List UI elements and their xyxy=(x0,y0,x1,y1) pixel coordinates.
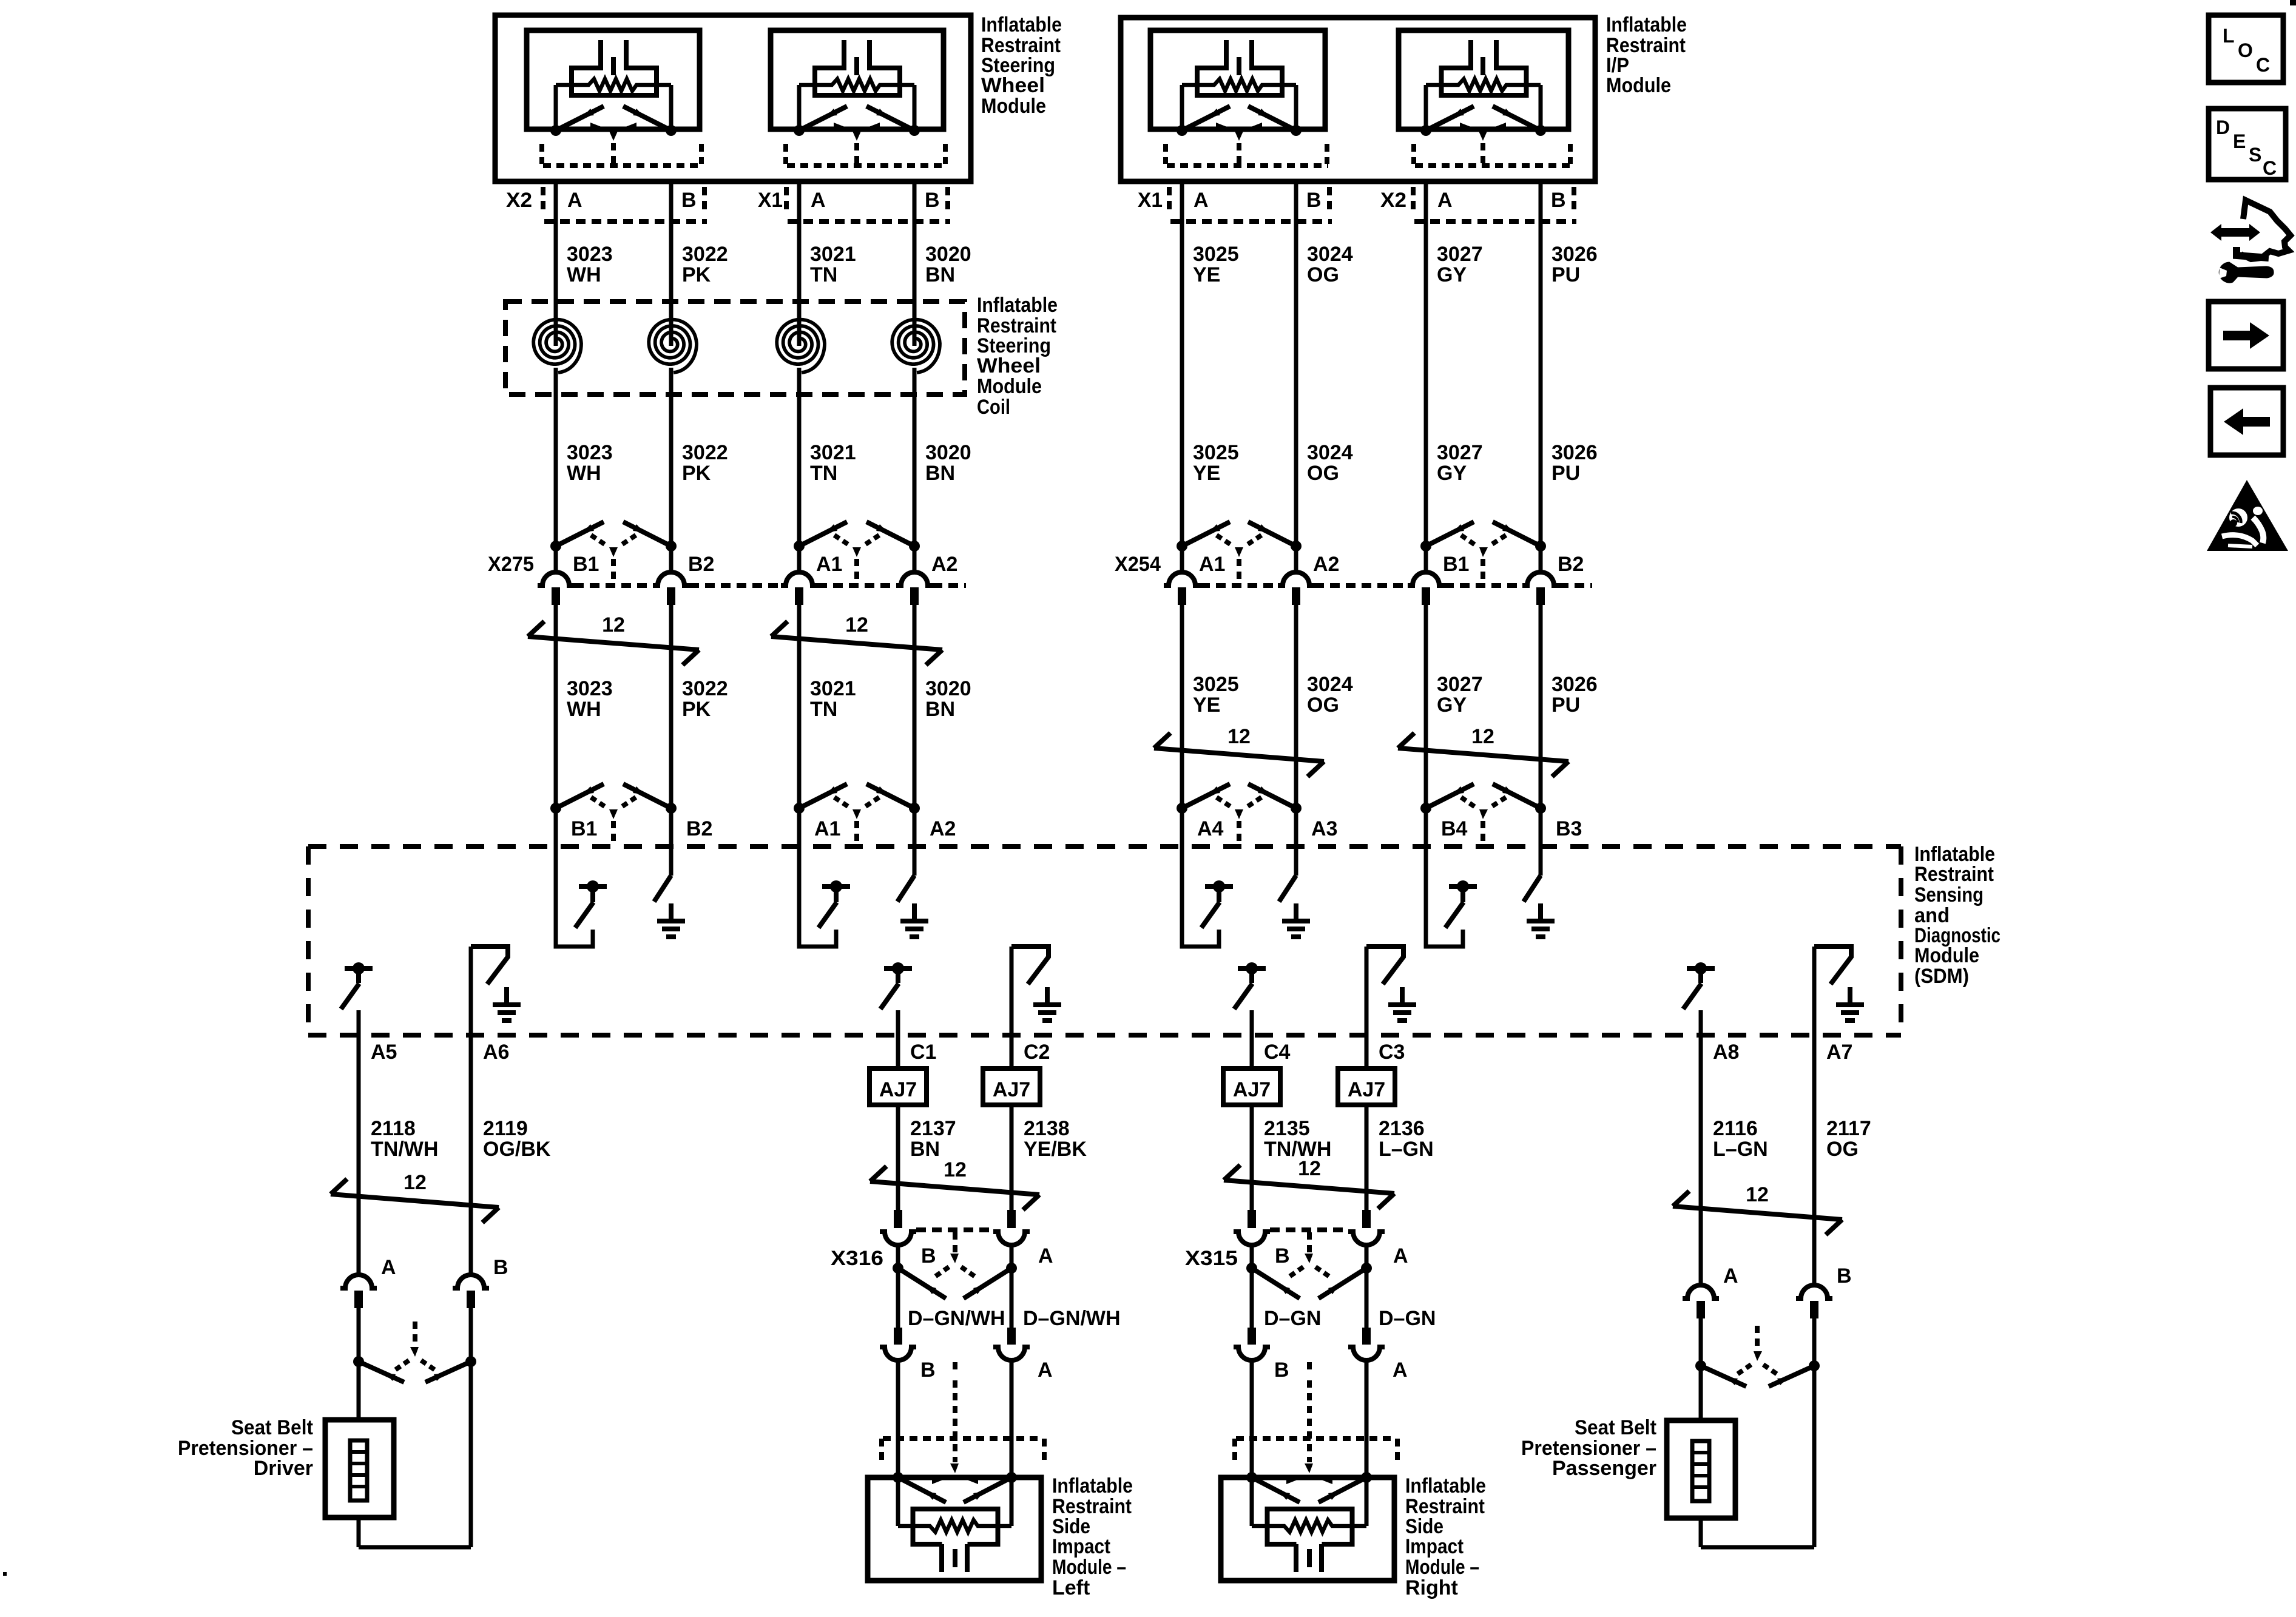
ground (SDM internal) xyxy=(669,903,674,921)
svg-text:TN: TN xyxy=(810,698,837,721)
svg-text:C2: C2 xyxy=(1024,1041,1050,1064)
svg-text:GY: GY xyxy=(1437,694,1467,717)
svg-text:YE/BK: YE/BK xyxy=(1024,1138,1087,1161)
svg-text:A: A xyxy=(1393,1359,1408,1382)
junction (squib connector) xyxy=(794,125,805,136)
svg-text:A: A xyxy=(1393,1244,1408,1268)
svg-text:Module: Module xyxy=(977,375,1042,398)
connector X1 dashed outline xyxy=(784,187,789,214)
svg-text:B: B xyxy=(493,1256,508,1279)
connector key (dashed stem) xyxy=(609,130,618,141)
svg-text:Left: Left xyxy=(1052,1576,1090,1599)
connector X254 terminal B2 xyxy=(1535,541,1546,552)
wire 3026 PU xyxy=(1539,181,1543,546)
wire below coil xyxy=(554,368,558,546)
terminal B (pretensioner connector) xyxy=(1796,1285,1832,1298)
svg-text:BN: BN xyxy=(910,1138,940,1161)
module box: Inflatable Restraint Steering Wheel Module xyxy=(495,15,971,181)
wire 3027 GY xyxy=(1424,181,1428,546)
svg-text:YE: YE xyxy=(1193,694,1220,717)
connector X275 terminal A1 xyxy=(794,541,805,552)
svg-text:B2: B2 xyxy=(1558,553,1584,576)
wire (into module) xyxy=(1010,1360,1014,1526)
svg-text:B: B xyxy=(1306,189,1322,212)
wire (connector to SDM) xyxy=(797,605,802,808)
wire 2119 OG/BK xyxy=(469,1038,473,1274)
ground (SDM internal) xyxy=(1294,903,1298,921)
module box: Inflatable Restraint Side Impact Module xyxy=(1221,1477,1394,1581)
connector X316 keying (dashed Y) xyxy=(953,1232,957,1254)
terminal arrows xyxy=(1252,1268,1300,1298)
svg-text:2118: 2118 xyxy=(371,1117,416,1140)
squib initiator (side impact, inverted) xyxy=(913,1509,998,1544)
svg-text:Wheel: Wheel xyxy=(981,74,1045,97)
wire (connector to SDM) xyxy=(1294,605,1298,808)
svg-text:2135: 2135 xyxy=(1264,1117,1310,1140)
wire (into module) xyxy=(896,1360,900,1526)
connector X275 terminal B2 xyxy=(666,541,677,552)
svg-text:3021: 3021 xyxy=(810,441,856,464)
svg-text:OG: OG xyxy=(1307,462,1339,485)
SDM switch to ground (return) xyxy=(469,947,473,1038)
connector chevron arrows xyxy=(556,106,604,130)
wire (connector to SDM) xyxy=(669,605,674,808)
wire xyxy=(357,1308,361,1420)
icon: forward arrow box xyxy=(2209,302,2283,369)
twisted pair symbol xyxy=(528,636,699,650)
terminal B (side impact module) xyxy=(1248,1328,1256,1345)
junction xyxy=(1246,1263,1257,1274)
wire (connector to SDM) xyxy=(1424,605,1428,808)
svg-text:O: O xyxy=(2238,39,2253,61)
wire (AJ7 down) xyxy=(896,1105,900,1210)
terminal A (side impact module) xyxy=(1007,1328,1016,1345)
wire below coil xyxy=(669,368,674,546)
svg-text:3022: 3022 xyxy=(682,243,728,266)
svg-text:Passenger: Passenger xyxy=(1552,1457,1656,1480)
svg-text:12: 12 xyxy=(403,1171,427,1194)
wire (AJ7 down) xyxy=(1250,1105,1254,1210)
svg-text:TN: TN xyxy=(810,462,837,485)
svg-text:2119: 2119 xyxy=(483,1117,528,1140)
wire (SDM pin) xyxy=(1699,1010,1703,1038)
coil (spiral winding) xyxy=(533,320,581,373)
svg-text:Restraint: Restraint xyxy=(1914,863,1994,886)
squib sub-module box xyxy=(527,30,700,129)
svg-text:Coil: Coil xyxy=(977,396,1010,419)
twisted pair symbol xyxy=(331,1194,499,1207)
wire 2118 TN/WH xyxy=(357,1038,361,1274)
svg-text:X254: X254 xyxy=(1115,553,1161,576)
svg-text:B1: B1 xyxy=(1443,553,1469,576)
wire (AJ7 down) xyxy=(1365,1105,1369,1210)
SDM switch to ground (return) xyxy=(1812,947,1817,1038)
terminal A (side impact module) xyxy=(1362,1328,1371,1345)
svg-text:C1: C1 xyxy=(910,1041,936,1064)
svg-text:12: 12 xyxy=(1471,725,1494,748)
svg-text:3026: 3026 xyxy=(1551,441,1598,464)
wire 3024 OG xyxy=(1294,181,1298,546)
wire D-GN/WH B xyxy=(896,1268,900,1328)
junction xyxy=(1695,1360,1706,1371)
svg-text:PK: PK xyxy=(682,698,711,721)
terminal arrows xyxy=(898,1477,946,1502)
svg-text:D–GN/WH: D–GN/WH xyxy=(908,1307,1005,1330)
SDM driver switch (measure/hook) xyxy=(556,808,593,947)
icon: LOC box xyxy=(2209,15,2283,83)
svg-text:2117: 2117 xyxy=(1826,1117,1871,1140)
connector X275 keying (dashed Y) xyxy=(834,535,851,546)
svg-text:GY: GY xyxy=(1437,263,1467,286)
svg-text:3027: 3027 xyxy=(1437,243,1483,266)
wire (connector to SDM) xyxy=(1180,605,1184,808)
svg-text:2136: 2136 xyxy=(1379,1117,1425,1140)
svg-text:Inflatable: Inflatable xyxy=(1052,1474,1133,1497)
module box: Seat Belt Pretensioner xyxy=(1667,1420,1735,1518)
svg-text:3021: 3021 xyxy=(810,677,856,700)
svg-text:D–GN: D–GN xyxy=(1379,1307,1436,1330)
junction xyxy=(893,1263,903,1274)
twisted pair symbol xyxy=(771,636,942,650)
svg-text:B: B xyxy=(921,1244,936,1268)
wire (squib leads down to module edge) xyxy=(1424,85,1428,130)
svg-text:X2: X2 xyxy=(1380,189,1406,212)
svg-text:L–GN: L–GN xyxy=(1713,1138,1768,1161)
svg-text:AJ7: AJ7 xyxy=(993,1078,1030,1101)
connector X315 dashed rail xyxy=(1270,1227,1348,1232)
terminal A (pretensioner connector) xyxy=(1683,1285,1719,1298)
connector X275 terminal A2 xyxy=(909,541,920,552)
connector X315 terminal A xyxy=(1362,1210,1371,1228)
SDM switch to ground (return) xyxy=(1010,947,1014,1038)
svg-text:WH: WH xyxy=(567,263,601,286)
twisted pair symbol xyxy=(1224,1180,1394,1193)
svg-text:C: C xyxy=(2263,157,2277,179)
svg-text:X275: X275 xyxy=(488,553,534,576)
svg-text:B: B xyxy=(920,1359,936,1382)
svg-text:Impact: Impact xyxy=(1405,1535,1464,1558)
SDM pin B2 chevron xyxy=(666,803,677,814)
connector X275 dashed rail xyxy=(574,583,653,588)
SDM pin A3 chevron xyxy=(1291,803,1302,814)
svg-text:3022: 3022 xyxy=(682,441,728,464)
SDM switch to ground xyxy=(913,808,917,876)
svg-text:AJ7: AJ7 xyxy=(1348,1078,1385,1101)
connector X254 terminal B1 xyxy=(1420,541,1431,552)
squib connector dashed outline xyxy=(1411,144,1416,164)
svg-text:Module: Module xyxy=(981,95,1046,118)
wire (SDM pin to AJ7) xyxy=(1365,1038,1369,1068)
SDM switch to ground xyxy=(1539,808,1543,876)
svg-text:(SDM): (SDM) xyxy=(1914,965,1969,988)
svg-text:3020: 3020 xyxy=(925,677,971,700)
svg-text:Module: Module xyxy=(1606,74,1671,97)
wire (AJ7 down) xyxy=(1010,1105,1014,1210)
svg-text:Seat Belt: Seat Belt xyxy=(231,1416,313,1439)
svg-text:A2: A2 xyxy=(1313,553,1339,576)
wire (squib leads down to module edge) xyxy=(1180,85,1184,130)
svg-text:Inflatable: Inflatable xyxy=(981,13,1062,36)
svg-text:PU: PU xyxy=(1551,263,1580,286)
svg-text:E: E xyxy=(2233,130,2246,152)
SDM driver switch (measure/hook) xyxy=(1426,808,1463,947)
svg-text:YE: YE xyxy=(1193,462,1220,485)
connector keying (dashed Y) xyxy=(413,1322,417,1347)
svg-text:3024: 3024 xyxy=(1307,441,1353,464)
wire 3023 WH (steering wheel module A to coil) xyxy=(554,181,558,340)
wire (into module) xyxy=(1365,1360,1369,1526)
junction (squib connector) xyxy=(1420,125,1431,136)
svg-text:A6: A6 xyxy=(483,1041,509,1064)
pretensioner squib element xyxy=(1692,1441,1709,1501)
SDM switch to ground (return) xyxy=(1365,947,1369,1038)
wire (SDM pin to AJ7) xyxy=(1010,1038,1014,1068)
SDM connector keying (dashed Y) xyxy=(591,797,607,808)
svg-text:OG: OG xyxy=(1826,1138,1859,1161)
svg-text:OG: OG xyxy=(1307,694,1339,717)
svg-text:C4: C4 xyxy=(1264,1041,1291,1064)
svg-text:B: B xyxy=(1837,1264,1852,1288)
wire (SDM pin to AJ7) xyxy=(896,1038,900,1068)
fuse AJ7 xyxy=(1223,1068,1280,1105)
wire 2116 L-GN xyxy=(1699,1038,1703,1284)
wire (squib leads down to module edge) xyxy=(797,85,802,130)
svg-text:Inflatable: Inflatable xyxy=(1606,13,1687,36)
pretensioner squib element xyxy=(350,1440,367,1501)
svg-text:A5: A5 xyxy=(371,1041,397,1064)
svg-text:Module: Module xyxy=(1914,944,1979,967)
svg-text:A1: A1 xyxy=(816,553,842,576)
svg-text:B4: B4 xyxy=(1441,817,1468,840)
wire 3025 YE (I/P module to SDM) xyxy=(1180,181,1184,546)
svg-text:Right: Right xyxy=(1405,1576,1458,1599)
connector X254 dashed rail xyxy=(1200,583,1278,588)
wire (connector to SDM) xyxy=(1539,605,1543,808)
svg-text:L: L xyxy=(2223,25,2235,47)
fuse AJ7 xyxy=(1338,1068,1395,1105)
svg-text:B1: B1 xyxy=(571,817,597,840)
junction (squib connector) xyxy=(550,125,561,136)
squib initiator (resistor in housing) xyxy=(1468,40,1473,70)
SDM connector keying (dashed Y) xyxy=(1217,797,1233,808)
svg-text:A: A xyxy=(1194,189,1209,212)
svg-text:2116: 2116 xyxy=(1713,1117,1758,1140)
page corner mark xyxy=(2290,0,2296,5)
svg-text:B: B xyxy=(925,189,940,212)
connector X275 terminal B1 xyxy=(550,541,561,552)
dashed connector outline above module xyxy=(879,1439,884,1464)
SDM driver switch (measure bar) xyxy=(345,966,373,971)
connector X316 terminal A xyxy=(1007,1210,1016,1228)
connector chevron arrows xyxy=(799,106,847,130)
wire below coil xyxy=(797,368,802,546)
svg-text:3024: 3024 xyxy=(1307,243,1353,266)
svg-text:B1: B1 xyxy=(573,553,599,576)
junction (module pins) xyxy=(1246,1472,1257,1483)
dashed box: Inflatable Restraint Steering Wheel Module Coil xyxy=(505,302,965,394)
svg-text:B: B xyxy=(1274,1359,1289,1382)
connector keying (dashed stem) xyxy=(953,1362,957,1372)
connector X1 dashed outline xyxy=(1167,187,1172,214)
SDM driver switch (measure bar) xyxy=(1687,966,1715,971)
svg-text:Driver: Driver xyxy=(254,1457,313,1480)
svg-text:B2: B2 xyxy=(686,817,712,840)
squib sub-module box xyxy=(1150,30,1325,129)
SDM dashed box: Inflatable Restraint Sensing and Diagnostic Module xyxy=(308,844,1901,849)
ground (SDM internal) xyxy=(1538,903,1543,921)
svg-text:3023: 3023 xyxy=(567,677,613,700)
svg-text:2137: 2137 xyxy=(910,1117,956,1140)
connector key (dashed stem) xyxy=(1478,130,1488,141)
connector chevron arrows xyxy=(1426,106,1474,130)
connector X316 dashed rail xyxy=(916,1227,993,1232)
svg-text:A7: A7 xyxy=(1826,1041,1852,1064)
svg-text:PK: PK xyxy=(682,462,711,485)
wire (connector to SDM) xyxy=(554,605,558,808)
twisted pair symbol xyxy=(870,1181,1039,1195)
svg-text:BN: BN xyxy=(925,263,955,286)
svg-text:TN: TN xyxy=(810,263,837,286)
svg-text:B3: B3 xyxy=(1556,817,1582,840)
connector X2 dashed outline xyxy=(1411,187,1416,214)
svg-text:X2: X2 xyxy=(506,189,532,212)
junction xyxy=(353,1356,364,1367)
coil (spiral winding) xyxy=(892,320,940,373)
terminal B (pretensioner connector) xyxy=(453,1275,489,1288)
SDM pin B3 chevron xyxy=(1535,803,1546,814)
twisted pair symbol xyxy=(1398,748,1568,761)
wire into coil center xyxy=(669,340,674,346)
svg-text:A: A xyxy=(1437,189,1453,212)
connector X275 keying (dashed Y) xyxy=(591,535,607,546)
svg-text:3026: 3026 xyxy=(1551,673,1598,696)
svg-text:OG/BK: OG/BK xyxy=(483,1138,551,1161)
svg-text:3023: 3023 xyxy=(567,243,613,266)
module box: Inflatable Restraint Side Impact Module xyxy=(868,1477,1041,1581)
wire (into module) xyxy=(1250,1360,1254,1526)
svg-text:3025: 3025 xyxy=(1193,243,1239,266)
svg-text:3020: 3020 xyxy=(925,243,971,266)
svg-text:S: S xyxy=(2249,144,2261,166)
svg-text:A8: A8 xyxy=(1713,1041,1739,1064)
svg-text:3024: 3024 xyxy=(1307,673,1353,696)
SDM pin B4 chevron xyxy=(1420,803,1431,814)
module box: Inflatable Restraint I/P Module xyxy=(1121,18,1595,181)
wire 3020 BN xyxy=(913,181,917,340)
wire into coil center xyxy=(913,340,917,346)
ground (SDM internal) xyxy=(1045,987,1050,1005)
connector X254 keying (dashed Y) xyxy=(1461,535,1477,546)
SDM connector keying (dashed Y) xyxy=(834,797,851,808)
connector X254 terminal A2 xyxy=(1291,541,1302,552)
wire (connector down) xyxy=(896,1268,900,1329)
connector keying (dashed Y) xyxy=(1755,1326,1760,1351)
svg-text:3025: 3025 xyxy=(1193,673,1239,696)
wire xyxy=(1812,1318,1817,1547)
coil (spiral winding) xyxy=(777,320,825,373)
svg-text:X316: X316 xyxy=(831,1247,883,1270)
svg-text:2138: 2138 xyxy=(1024,1117,1070,1140)
fuse AJ7 xyxy=(869,1068,927,1105)
page margin dot xyxy=(3,1572,7,1576)
terminal arrows xyxy=(359,1362,404,1382)
svg-text:12: 12 xyxy=(944,1158,967,1181)
squib sub-module box xyxy=(771,30,944,129)
twisted pair symbol xyxy=(1154,748,1324,761)
svg-text:Inflatable: Inflatable xyxy=(977,294,1058,317)
svg-text:Sensing: Sensing xyxy=(1914,883,1984,906)
wire xyxy=(1699,1318,1703,1420)
SDM connector keying (dashed Y) xyxy=(1461,797,1477,808)
SDM driver switch (measure bar) xyxy=(1238,966,1266,971)
connector X254 keying (dashed Y) xyxy=(1217,535,1233,546)
squib connector dashed outline xyxy=(539,144,544,164)
connector key (dashed stem) xyxy=(1234,130,1244,141)
svg-text:D: D xyxy=(2216,116,2230,138)
wire 3022 PK xyxy=(669,181,674,340)
svg-text:12: 12 xyxy=(845,613,868,636)
svg-text:A: A xyxy=(1723,1264,1738,1288)
svg-text:WH: WH xyxy=(567,698,601,721)
SDM pin A1 chevron xyxy=(794,803,805,814)
svg-text:Module –: Module – xyxy=(1405,1556,1479,1579)
SDM driver switch (measure/hook) xyxy=(799,808,836,947)
svg-text:GY: GY xyxy=(1437,462,1467,485)
connector X316 terminal B xyxy=(894,1210,902,1228)
svg-text:YE: YE xyxy=(1193,263,1220,286)
svg-text:3023: 3023 xyxy=(567,441,613,464)
wire D-GN B xyxy=(1250,1268,1254,1328)
svg-text:B: B xyxy=(1551,189,1566,212)
terminal B (side impact module) xyxy=(894,1328,902,1345)
connector chevron arrows xyxy=(1182,106,1230,130)
svg-text:BN: BN xyxy=(925,462,955,485)
svg-text:PU: PU xyxy=(1551,694,1580,717)
svg-text:PK: PK xyxy=(682,263,711,286)
twisted pair symbol xyxy=(1673,1206,1842,1220)
fuse AJ7 xyxy=(983,1068,1040,1105)
svg-text:BN: BN xyxy=(925,698,955,721)
module box: Seat Belt Pretensioner xyxy=(325,1420,394,1517)
junction (squib connector) xyxy=(1177,125,1187,136)
svg-text:X1: X1 xyxy=(1138,189,1163,212)
connector X315 terminal B xyxy=(1248,1210,1256,1228)
svg-text:OG: OG xyxy=(1307,263,1339,286)
icon: airbag caution triangle xyxy=(2207,480,2288,551)
wire (loop return) xyxy=(357,1517,361,1547)
svg-text:A: A xyxy=(567,189,582,212)
squib connector dashed outline xyxy=(783,144,788,164)
svg-text:A1: A1 xyxy=(814,817,840,840)
SDM driver switch (measure/hook) xyxy=(1182,808,1219,947)
svg-text:AJ7: AJ7 xyxy=(1233,1078,1271,1101)
wire (SDM pin) xyxy=(896,1010,900,1038)
squib initiator (side impact, inverted) xyxy=(1268,1509,1352,1544)
SDM pin A4 chevron xyxy=(1177,803,1187,814)
svg-text:A3: A3 xyxy=(1311,817,1337,840)
coil (spiral winding) xyxy=(649,320,697,373)
svg-text:12: 12 xyxy=(602,613,625,636)
svg-text:WH: WH xyxy=(567,462,601,485)
svg-text:PU: PU xyxy=(1551,462,1580,485)
svg-text:A: A xyxy=(381,1256,396,1279)
terminal A (pretensioner connector) xyxy=(340,1275,377,1288)
SDM switch to ground xyxy=(1294,808,1298,876)
wire into coil center xyxy=(554,340,558,346)
svg-text:B: B xyxy=(681,189,697,212)
wire D-GN A xyxy=(1365,1268,1369,1328)
SDM driver switch (measure bar) xyxy=(884,966,912,971)
